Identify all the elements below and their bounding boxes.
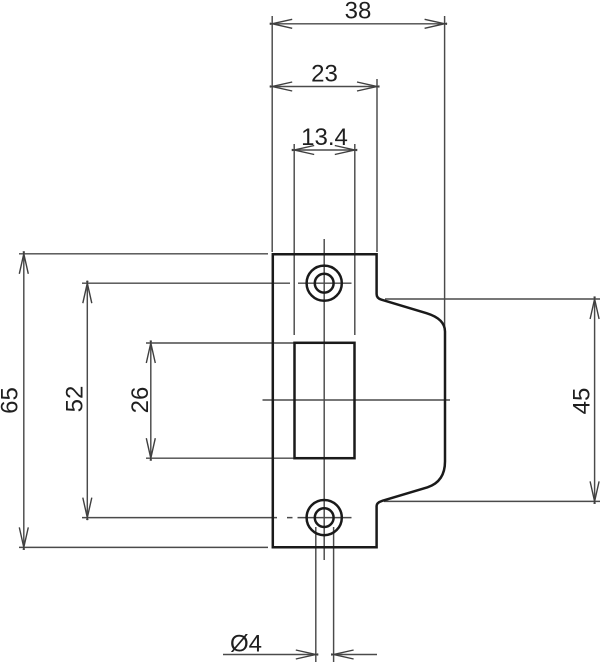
svg-text:52: 52 <box>62 386 89 413</box>
extension line right of 13.4 <box>354 144 356 335</box>
svg-text:65: 65 <box>0 387 23 414</box>
diameter 4 right extension line <box>333 527 335 662</box>
extension line right of 38 (down to bump edge) <box>444 16 446 328</box>
dimension line 26 <box>150 343 152 458</box>
extension line left of 38/23 (above plate) <box>271 16 273 252</box>
extension line right of 23 <box>376 79 378 252</box>
45 bottom extension line <box>384 500 600 502</box>
dimension line diameter 4 right part <box>334 654 377 656</box>
svg-text:45: 45 <box>569 388 596 415</box>
dimension line 52 <box>86 283 88 517</box>
svg-text:Ø4: Ø4 <box>230 631 262 658</box>
26 top extension line <box>146 342 296 344</box>
latch hole rectangle <box>295 343 355 458</box>
svg-text:38: 38 <box>345 0 372 25</box>
52 top extension line / top hole center mark <box>82 282 352 284</box>
svg-text:23: 23 <box>311 61 338 88</box>
dimension line 38 <box>272 23 444 25</box>
vertical centerline through holes <box>323 239 325 560</box>
45 top extension line <box>385 298 600 300</box>
dimension line 23 <box>272 86 377 88</box>
dimension line 45 <box>594 299 596 501</box>
65 bottom extension line <box>19 546 268 548</box>
dimension line 13.4 <box>294 149 355 151</box>
bottom screw hole inner circle <box>315 508 334 527</box>
strike plate outline <box>273 254 445 547</box>
horizontal centerline through latch hole <box>263 399 451 401</box>
dimension line 65 <box>23 254 25 548</box>
svg-text:13.4: 13.4 <box>301 124 348 151</box>
bottom screw hole outer circle <box>307 500 342 535</box>
top screw hole inner circle <box>315 274 334 293</box>
65 top extension line <box>19 253 268 255</box>
26 bottom extension line <box>146 457 296 459</box>
svg-text:26: 26 <box>127 387 154 414</box>
top screw hole outer circle <box>307 266 342 301</box>
52 bottom extension line / bottom hole center mark <box>82 517 352 519</box>
diameter 4 left extension line <box>315 527 317 662</box>
dimension line diameter 4 left part <box>223 654 316 656</box>
extension line left of 13.4 <box>293 144 295 335</box>
